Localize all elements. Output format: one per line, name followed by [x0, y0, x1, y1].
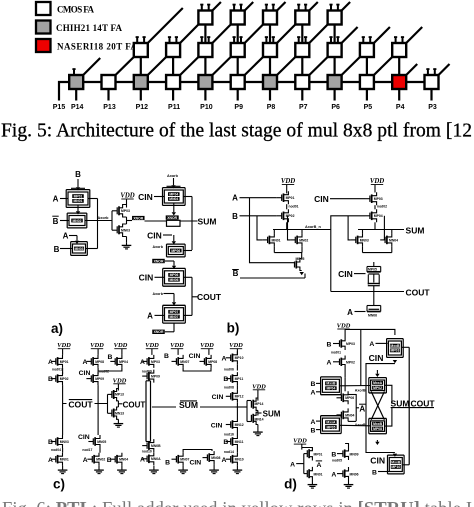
wire B-bar rail b)	[240, 277, 305, 279]
svg-text:COUT: COUT	[123, 400, 146, 409]
partial-product input legs of mid FA P4	[395, 36, 397, 43]
svg-text:A: A	[310, 390, 315, 397]
svg-text:CIN: CIN	[212, 394, 224, 401]
svg-text:P6: P6	[331, 104, 340, 111]
PMOS MP14	[250, 401, 252, 408]
PMOS MP09 c)	[86, 378, 91, 380]
PMOS MP09 c) col4	[142, 375, 147, 377]
ground c) col6	[213, 464, 215, 467]
svg-text:SUM: SUM	[179, 400, 198, 410]
svg-text:A: A	[232, 194, 238, 203]
wire Axorb to gate of tgate MP04/MN04	[173, 178, 175, 185]
wire inverter output node	[126, 217, 128, 224]
wire diagonal input of top FA P10	[212, 2, 221, 11]
wire MP02 to output rail	[286, 222, 288, 229]
svg-text:MN05: MN05	[97, 440, 106, 444]
net SUMbar label	[176, 401, 200, 409]
svg-text:A: A	[53, 194, 59, 203]
partial-product input legs of mid FA P8	[265, 36, 267, 43]
ground c) col1	[62, 466, 64, 468]
series pass gate on SUM wire	[167, 220, 181, 226]
svg-text:MP08: MP08	[373, 427, 382, 431]
svg-text:AxorB: AxorB	[355, 389, 366, 393]
svg-text:MP01: MP01	[74, 194, 83, 198]
svg-text:B: B	[233, 269, 239, 278]
wire col5/6 bottom join	[183, 450, 212, 453]
wire COUT inverter output	[117, 401, 119, 407]
svg-text:P14: P14	[71, 104, 84, 111]
svg-text:VDD: VDD	[170, 342, 184, 349]
wire bottom-row carry chain	[76, 81, 431, 83]
svg-text:SUM: SUM	[406, 225, 425, 235]
svg-text:CIN: CIN	[314, 194, 329, 204]
COUT bus vertical wire	[191, 277, 193, 315]
svg-text:Axorb: Axorb	[167, 174, 179, 178]
svg-text:B: B	[223, 376, 228, 383]
svg-text:A: A	[316, 462, 321, 469]
wire tgate MP06/MN06 output to COUT bus	[184, 276, 193, 278]
FA mid row above P6	[328, 43, 342, 57]
svg-text:SUM: SUM	[391, 399, 410, 409]
wire diagonal FA P6 to mid FA P5	[342, 57, 360, 75]
wire sum output of FA P12	[140, 89, 142, 101]
PMOS MP02 d)	[333, 361, 340, 363]
FA top row above P9	[231, 11, 245, 25]
FA mid row above P10	[198, 43, 212, 57]
partial-product input legs of top FA P8	[265, 4, 267, 11]
wire MN03/MN04 drains	[362, 230, 364, 234]
gate stub below MP04/MN04	[173, 203, 175, 212]
transmission gate MP07/MN07	[163, 304, 186, 306]
transmission gate MN02	[67, 212, 87, 214]
svg-text:CHIH21 14T FA: CHIH21 14T FA	[56, 23, 123, 33]
svg-text:MP03: MP03	[374, 197, 383, 201]
partial-product input legs of top FA P7	[298, 4, 300, 11]
transmission gate bottom right d)	[388, 454, 405, 456]
wire FA column P9 mid-to-bottom	[237, 57, 239, 75]
FA top row above P8	[263, 11, 277, 25]
wire VDD col1	[62, 349, 64, 355]
svg-text:MN01: MN01	[272, 238, 281, 242]
svg-text:CIN: CIN	[139, 273, 154, 283]
svg-text:B: B	[48, 439, 53, 446]
svg-text:MxxB: MxxB	[390, 344, 400, 348]
svg-text:MP01: MP01	[286, 196, 295, 200]
svg-text:VDD: VDD	[252, 383, 266, 390]
wire sum output of FA P5	[366, 89, 368, 101]
wire col1 low	[62, 448, 64, 453]
wire B-bar to tgate MN02	[60, 220, 69, 222]
NMOS MN01 d)	[306, 470, 308, 477]
wire col2 mid	[97, 368, 99, 374]
wire col1 mid	[62, 368, 64, 374]
wire A down to MP05 gate	[250, 198, 295, 263]
wire diagonal mid FA P11 to top FA P10	[180, 25, 198, 44]
FA P4 (bottom row)	[392, 75, 406, 89]
wire FA column P6 top-to-mid	[334, 25, 336, 44]
gate stub of top tgate	[393, 360, 397, 363]
partial-product input legs of top FA P9	[233, 4, 235, 11]
svg-text:CIN: CIN	[369, 353, 384, 363]
svg-text:P5: P5	[364, 104, 373, 111]
PMOS MP01 d)	[306, 450, 308, 457]
wire diagonal mid FA P8 to top FA P7	[277, 25, 295, 44]
svg-text:VDD: VDD	[200, 342, 214, 349]
svg-text:MxxA: MxxA	[326, 421, 336, 425]
svg-text:A: A	[310, 419, 315, 426]
svg-text:MN04: MN04	[389, 238, 398, 242]
wire diagonal input of top FA P9	[245, 2, 254, 11]
wire sum output of FA P13	[107, 89, 109, 101]
SUM inverter input bracket	[246, 401, 248, 422]
PMOS MN07 c)	[172, 360, 177, 362]
svg-text:MP04: MP04	[374, 214, 383, 218]
svg-text:XNOR: XNOR	[133, 216, 143, 220]
wire MN01/MN02 drains to rail	[273, 230, 275, 234]
wire MN04 gate from CIN	[383, 216, 385, 240]
wire col7 to SUMbar	[236, 403, 238, 418]
svg-text:MP04: MP04	[169, 192, 178, 196]
transmission gate MP01/MN01	[66, 189, 90, 191]
wire Axorb to inverter input	[85, 220, 112, 222]
wire col2 to rail	[97, 385, 99, 403]
wire col3 down	[98, 368, 122, 371]
wire sum output of FA P9	[237, 89, 239, 101]
wire FA column P10 top-to-mid	[204, 25, 206, 44]
wire col2 low	[99, 448, 101, 453]
wire diagonal FA P9 to mid FA P8	[245, 57, 263, 75]
svg-text:B: B	[232, 212, 238, 221]
svg-text:MP02: MP02	[286, 214, 295, 218]
wire VDD to MP14	[257, 390, 259, 401]
net XNOR label	[132, 216, 145, 220]
wire FA column P4 mid-to-bottom	[398, 57, 400, 75]
FA P7 (bottom row)	[295, 75, 309, 89]
svg-text:B: B	[48, 376, 53, 383]
svg-text:P3: P3	[428, 104, 437, 111]
svg-text:Fig. 6: PTL: Full adder used i: Fig. 6: PTL: Full adder used in yellow r…	[2, 500, 472, 507]
svg-text:MxxA: MxxA	[373, 381, 383, 385]
svg-text:VDD: VDD	[229, 342, 243, 349]
FA mid row above P12	[134, 43, 148, 57]
wire bottom tgate to bus	[403, 464, 410, 466]
PMOS MP13	[111, 391, 113, 398]
svg-text:A: A	[48, 457, 53, 464]
wire COUT output	[192, 296, 198, 298]
wire diagonal input of FA P3	[439, 64, 450, 75]
wire sum output of FA P4	[398, 89, 400, 101]
svg-text:MP03: MP03	[151, 360, 160, 364]
FA mid row above P5	[360, 43, 374, 57]
net XNOR label on series gate	[166, 215, 179, 219]
FA P3 (bottom row)	[425, 75, 439, 89]
wire carry-out to P15	[59, 82, 69, 101]
FA P6 (bottom row)	[328, 75, 342, 89]
svg-text:B: B	[327, 342, 332, 349]
wire col7 c	[236, 431, 238, 435]
wire X outputs to SUM node d)	[385, 385, 392, 404]
wire AxorB_n bus down to COUT stage	[330, 230, 332, 292]
svg-text:MP10: MP10	[235, 356, 244, 360]
svg-text:MxxB: MxxB	[391, 460, 401, 464]
svg-text:P8: P8	[267, 104, 276, 111]
wire VDD d) inverter	[301, 444, 303, 449]
PMOS MP03 b)	[365, 198, 370, 200]
wire diagonal input of top FA P7	[309, 2, 318, 11]
transmission gate MP04/MN04	[163, 187, 186, 189]
svg-text:CIN: CIN	[370, 455, 385, 465]
svg-text:SUM: SUM	[263, 409, 281, 418]
svg-text:MP05: MP05	[326, 425, 335, 429]
wire FA column P11 mid-to-bottom	[172, 57, 174, 75]
NMOS MN05 c)	[88, 441, 93, 443]
svg-text:CIN: CIN	[78, 434, 90, 441]
wire diagonal FA P11 to mid FA P10	[180, 57, 198, 75]
wire diagonal input of mid FA P12	[148, 8, 183, 43]
FA P9 (bottom row)	[231, 75, 245, 89]
net XNOR label bottom of a)	[152, 330, 165, 334]
svg-text:c): c)	[53, 477, 65, 492]
svg-text:Axorb: Axorb	[153, 245, 164, 249]
wire diagonal input of mid FA P4	[406, 27, 422, 43]
svg-text:P4: P4	[396, 104, 405, 111]
wire MP03 to MP04	[374, 205, 376, 209]
wire col7 d	[236, 448, 238, 453]
svg-text:A: A	[48, 359, 53, 366]
wire FA column P8 mid-to-bottom	[269, 57, 271, 75]
ground c) col3	[121, 466, 123, 468]
svg-text:CIN: CIN	[189, 459, 201, 466]
wire diagonal mid FA P7 to top FA P6	[309, 25, 327, 44]
svg-text:B: B	[372, 470, 377, 477]
svg-text:B: B	[108, 354, 113, 361]
svg-text:B: B	[75, 170, 81, 179]
svg-text:MxxB: MxxB	[373, 422, 383, 426]
wire diagonal FA P5 to mid FA P4	[374, 57, 392, 75]
wire SUM inverter output	[257, 410, 259, 415]
FA mid row above P7	[295, 43, 309, 57]
wire SUMbar rail	[152, 406, 236, 408]
svg-text:MN01: MN01	[314, 472, 323, 476]
FA mid row above P9	[231, 43, 245, 57]
PMOS MP08b c)	[200, 360, 205, 362]
svg-text:MN03: MN03	[360, 238, 369, 242]
svg-text:B: B	[107, 457, 112, 464]
svg-text:AxorB: AxorB	[355, 423, 366, 427]
wire VDD d) top	[344, 329, 346, 337]
COUT inverter input bracket	[107, 394, 109, 413]
wire VDD col3	[121, 349, 123, 355]
svg-text:MN03: MN03	[121, 229, 130, 233]
svg-text:MP02: MP02	[346, 361, 355, 365]
svg-text:nod08: nod08	[224, 385, 234, 389]
wire A to MN06 gate	[355, 311, 366, 313]
partial-product input legs of top FA P6	[330, 4, 332, 11]
partial-product input legs of mid FA P11	[169, 36, 171, 43]
wire col1 rail to NMOS MN03	[62, 404, 64, 436]
FA mid row above P4	[392, 43, 406, 57]
wire VDD col4	[151, 349, 153, 355]
svg-text:MN07: MN07	[169, 315, 178, 319]
wire B to MP02 gate	[240, 215, 277, 217]
svg-text:COUT: COUT	[197, 292, 222, 302]
legend CMOS FA swatch	[36, 2, 51, 15]
wire VDD to MP13	[117, 384, 119, 391]
wire sum output of FA P11	[172, 89, 174, 101]
gate stub between MP01 and MN02	[77, 205, 79, 211]
svg-text:MN14: MN14	[255, 417, 264, 421]
svg-text:COUT: COUT	[68, 399, 93, 409]
wire sum output of FA P3	[430, 89, 432, 101]
wire AxorB_n to MN03 gate	[348, 216, 351, 240]
svg-text:NASERI18 20T FA: NASERI18 20T FA	[57, 42, 138, 52]
wire SUM node to bus d)	[391, 407, 434, 409]
svg-text:Axorb: Axorb	[98, 216, 110, 220]
FA top row above P7	[295, 11, 309, 25]
svg-text:MN10: MN10	[235, 458, 244, 462]
wire AxorB_n to MP04 gate	[331, 216, 365, 230]
svg-text:VDD: VDD	[120, 193, 134, 200]
wire source rail down to MP05	[301, 253, 303, 259]
svg-text:MN06: MN06	[169, 278, 178, 282]
svg-text:B: B	[54, 245, 60, 254]
wire stack mid connections d)	[344, 378, 346, 392]
svg-text:XNOR: XNOR	[167, 216, 177, 220]
svg-text:COUT: COUT	[411, 399, 436, 409]
svg-text:P10: P10	[200, 104, 213, 111]
svg-text:A: A	[147, 312, 153, 321]
wire XNOR to gate of tgate MP06/MN06	[165, 260, 174, 262]
svg-text:CIN: CIN	[138, 192, 153, 202]
svg-text:MN11: MN11	[235, 440, 244, 444]
svg-text:MN01: MN01	[73, 199, 82, 203]
wire col2 rail to MN05	[97, 404, 99, 436]
PMOS MP03 d)	[333, 343, 340, 345]
svg-text:SUM: SUM	[198, 216, 217, 226]
MOSFET MP06 d)	[337, 397, 342, 399]
FA P13 (bottom row)	[102, 75, 116, 89]
svg-text:MP08: MP08	[95, 360, 104, 364]
partial-product input legs of mid FA P5	[362, 36, 364, 43]
transmission gate MP06/MN06 of COUT chain	[163, 267, 186, 269]
wire output bus of XOR stage	[97, 199, 99, 249]
wire VDD to PMOS MP03	[126, 199, 128, 207]
wire tgate MP07/MN07 output to COUT bus	[184, 314, 193, 316]
svg-text:MP12: MP12	[235, 395, 244, 399]
wire second pass gate output d)	[339, 424, 370, 427]
svg-text:MP02: MP02	[60, 377, 69, 381]
FA P12 (bottom row)	[134, 75, 148, 89]
wire diagonal FA P13 to mid FA P12	[116, 57, 134, 75]
svg-text:A: A	[83, 359, 88, 366]
svg-text:nod01: nod01	[52, 368, 62, 372]
wire diagonal input of mid FA P6	[342, 27, 358, 43]
wire diagonal FA P8 to mid FA P7	[277, 57, 295, 75]
wire MP01 to MP02	[286, 204, 288, 209]
svg-text:P7: P7	[299, 104, 308, 111]
transmission gate MN03	[71, 241, 88, 243]
svg-text:nod17: nod17	[82, 448, 92, 452]
wire CIN net vertical d)	[366, 364, 395, 453]
wire sum output of FA P7	[301, 89, 303, 101]
svg-text:MP01: MP01	[314, 452, 323, 456]
svg-text:MP11: MP11	[235, 377, 244, 381]
svg-text:nod16: nod16	[224, 432, 234, 436]
X pass gate upper d)	[376, 370, 378, 374]
svg-text:VDD: VDD	[90, 342, 104, 349]
wire A to MP01 gate	[240, 197, 277, 199]
wire diagonal input of FA P4	[406, 64, 417, 75]
NMOS MN12 c)	[226, 424, 231, 426]
svg-text:A: A	[83, 457, 88, 464]
svg-text:MN06: MN06	[350, 472, 359, 476]
FA P10 (bottom row)	[198, 75, 212, 89]
svg-text:A: A	[290, 461, 295, 468]
NMOS MN09 d)	[337, 453, 343, 455]
wire diagonal mid FA P9 to top FA P8	[245, 25, 263, 44]
svg-text:b): b)	[227, 321, 240, 336]
wire sum output of FA P6	[334, 89, 336, 101]
partial-product input legs of top FA P10	[201, 4, 203, 11]
svg-text:MN12: MN12	[235, 423, 244, 427]
svg-text:A: A	[359, 404, 365, 413]
wire FA column P6 mid-to-bottom	[334, 57, 336, 75]
wire CIN to tgate MP06/MN06	[155, 276, 165, 278]
inverter U-a1 input bracket	[111, 211, 113, 230]
svg-text:nod02: nod02	[377, 205, 387, 209]
pass transistor mid b)	[368, 283, 380, 285]
wire tgate MP04/MN04 output to SUM bus	[183, 196, 192, 198]
svg-text:MP01: MP01	[60, 360, 69, 364]
svg-text:MP04: MP04	[119, 360, 128, 364]
svg-text:nod10: nod10	[142, 449, 152, 453]
NMOS MN02	[290, 239, 295, 241]
svg-text:MP06: MP06	[345, 396, 354, 400]
partial-product input legs of mid FA P6	[330, 36, 332, 43]
wire col1 to COUTbar rail	[62, 385, 64, 403]
svg-text:B: B	[164, 353, 169, 360]
svg-text:d): d)	[284, 477, 297, 492]
wire diagonal input of FA P14	[83, 58, 100, 75]
wire inverter output to SUM node	[145, 220, 167, 222]
partial-product input legs of FA P3	[427, 68, 429, 75]
NMOS MN14	[250, 415, 252, 422]
wire diagonal FA P12 to mid FA P11	[148, 57, 166, 75]
NMOS MN03 b)	[351, 239, 356, 241]
wire diagonal FA P10 to mid FA P9	[212, 57, 230, 75]
wire col5/6 tops	[177, 349, 179, 355]
gate stub of bottom tgate d)	[393, 454, 397, 457]
svg-text:A: A	[222, 355, 227, 362]
svg-text:CIN: CIN	[79, 370, 91, 377]
svg-text:MN04: MN04	[169, 197, 178, 201]
NMOS MN04 b)	[380, 239, 385, 241]
transmission gate top right d)	[387, 338, 404, 340]
wire col5/6 drains join	[183, 368, 211, 371]
svg-text:CIN: CIN	[147, 230, 162, 240]
svg-text:A: A	[63, 232, 69, 241]
wire A to top tgate	[376, 342, 388, 344]
svg-text:MP03: MP03	[346, 342, 355, 346]
svg-text:MP10: MP10	[391, 465, 400, 469]
ground of SUM inverter	[257, 425, 259, 430]
svg-text:MN13: MN13	[115, 412, 124, 416]
wire SUM output rail	[358, 229, 404, 231]
svg-text:VDD: VDD	[114, 342, 128, 349]
svg-text:MP08: MP08	[208, 360, 217, 364]
wire A to gate of MN03	[69, 235, 77, 237]
wire B to gate of tgate MP01/MN01	[77, 179, 79, 187]
